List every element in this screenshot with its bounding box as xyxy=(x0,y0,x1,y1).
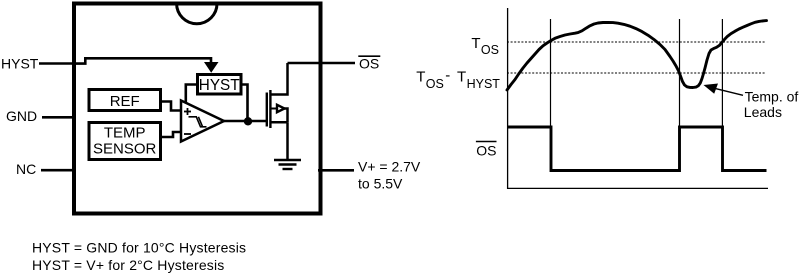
MOSFET body arrow xyxy=(277,105,285,112)
wire TEMP SENSOR to comparator - input xyxy=(161,132,182,137)
marker line 3 xyxy=(721,19,723,127)
wire V+ pin xyxy=(318,169,354,172)
wire GND pin xyxy=(42,116,76,119)
comparator hysteresis symbol xyxy=(189,117,207,127)
package notch xyxy=(177,4,217,24)
comparator - input mark xyxy=(184,133,191,135)
svg-text:HYST: HYST xyxy=(1,56,39,72)
svg-text:-: - xyxy=(445,67,450,84)
svg-text:OS: OS xyxy=(481,43,499,57)
svg-text:REF: REF xyxy=(110,93,140,110)
svg-text:SENSOR: SENSOR xyxy=(93,140,157,157)
svg-text:HYST = V+ for 2°C Hysteresis: HYST = V+ for 2°C Hysteresis xyxy=(32,257,224,273)
svg-text:GND: GND xyxy=(6,108,37,124)
svg-text:NC: NC xyxy=(16,161,36,177)
MOSFET gate plate xyxy=(266,93,268,127)
marker line 2 xyxy=(679,19,681,127)
svg-text:to 5.5V: to 5.5V xyxy=(358,176,403,192)
wire HYST block to comparator top xyxy=(186,85,197,104)
dotted threshold line TOS minus THYST xyxy=(507,72,765,74)
pin label HYST xyxy=(1,56,39,72)
temp sensor block xyxy=(89,123,161,160)
comparator xyxy=(181,101,224,142)
MOSFET drain connection xyxy=(270,63,287,95)
wire HYST internal feed with step xyxy=(76,58,211,63)
arrowhead into HYST block xyxy=(204,62,219,73)
arrow to curve dip xyxy=(704,84,744,96)
MOSFET channel plate xyxy=(269,90,271,128)
OS output waveform xyxy=(507,127,767,171)
svg-text:T: T xyxy=(416,69,425,86)
wire HYST pin xyxy=(39,62,76,65)
svg-text:OS: OS xyxy=(426,77,444,91)
svg-text:HYST: HYST xyxy=(199,77,240,94)
svg-text:T: T xyxy=(471,35,480,52)
hysteresis block HYST xyxy=(198,75,242,95)
pin label OS with overline xyxy=(358,56,380,72)
MOSFET source connection xyxy=(270,121,287,124)
dotted threshold line TOS xyxy=(507,41,765,43)
marker line 1 xyxy=(550,19,552,127)
svg-text:Temp. of: Temp. of xyxy=(745,89,799,105)
MOSFET body to source tie xyxy=(285,109,288,123)
svg-text:TEMP: TEMP xyxy=(104,124,146,141)
node comparator output junction xyxy=(244,117,252,125)
wire OS pin (drain to package edge and out) xyxy=(288,62,356,65)
label OS output with overline xyxy=(476,142,497,159)
note HYST strapping line 2 xyxy=(32,257,224,273)
svg-text:HYST = GND for 10°C Hysteresis: HYST = GND for 10°C Hysteresis xyxy=(32,240,246,256)
ground xyxy=(274,160,301,169)
svg-text:Leads: Leads xyxy=(744,104,782,120)
label TOS xyxy=(471,35,499,57)
timing diagram vertical axis xyxy=(507,8,509,189)
label Temp. of Leads xyxy=(744,89,799,120)
timing diagram horizontal axis xyxy=(507,187,768,189)
reference block REF xyxy=(89,90,161,111)
svg-text:HYST: HYST xyxy=(467,77,501,91)
wire feedback node to HYST block xyxy=(240,85,248,122)
pin label GND xyxy=(6,108,37,124)
label V+ supply xyxy=(358,158,421,191)
svg-text:OS: OS xyxy=(476,142,496,158)
wire NC pin xyxy=(41,169,76,172)
svg-text:T: T xyxy=(457,69,466,86)
pin label NC xyxy=(16,161,36,177)
temperature curve xyxy=(507,21,767,90)
MOSFET body line xyxy=(270,108,278,110)
svg-text:V+ = 2.7V: V+ = 2.7V xyxy=(358,158,421,174)
wire REF to comparator + input xyxy=(161,102,182,111)
label TOS minus THYST xyxy=(416,67,500,91)
note HYST strapping line 1 xyxy=(32,240,246,256)
comparator + input mark xyxy=(184,108,191,115)
package outline (IC body) xyxy=(74,4,321,214)
wire comparator output to MOSFET gate xyxy=(224,120,266,123)
svg-text:OS: OS xyxy=(359,56,379,72)
wire source to ground xyxy=(286,122,289,160)
